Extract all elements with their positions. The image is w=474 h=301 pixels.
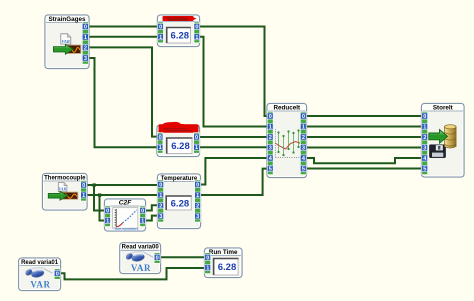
wire SG.2 to Freq2.L0: [88, 47, 158, 136]
wire SG.1 to Freq1.L1: [88, 36, 158, 38]
svg-text:1: 1: [196, 193, 199, 199]
subVI Frequency 2 (selected red title): [157, 122, 200, 157]
wire Freq1.R1 to ReduceIt.L1: [199, 37, 268, 127]
svg-text:6.28: 6.28: [171, 198, 190, 209]
svg-text:2: 2: [269, 135, 272, 141]
subVI Frequency 1 (selected red title): [158, 15, 200, 47]
svg-text:1: 1: [269, 125, 272, 131]
svg-text:6.28: 6.28: [171, 141, 190, 152]
wire ReduceIt.R4 to StoreIt.L4 jog: [306, 158, 422, 163]
subVI StrainGages: [45, 15, 89, 69]
wire ReadVaria01.0 to RunTime.L1: [60, 268, 205, 279]
svg-text:0: 0: [302, 114, 305, 120]
wire Thermocouple.R0 to Temperature.L0: [86, 184, 158, 186]
wire Freq1.R0 to ReduceIt.L0: [199, 27, 268, 117]
svg-text:2: 2: [159, 204, 162, 210]
svg-text:2: 2: [196, 204, 199, 210]
svg-text:1: 1: [159, 145, 162, 151]
svg-text:0: 0: [82, 183, 85, 189]
svg-text:3: 3: [84, 56, 87, 62]
subVI Thermocouple: [43, 174, 88, 211]
svg-text:5: 5: [423, 167, 426, 173]
svg-text:3: 3: [159, 214, 162, 220]
junction dot on Thermocouple.R0 wire: [92, 183, 95, 186]
svg-text:Run Time: Run Time: [209, 249, 238, 256]
subVI StoreIt: [422, 104, 465, 178]
svg-text:0: 0: [423, 114, 426, 120]
subVI ReduceIt: [267, 104, 307, 178]
svg-text:3: 3: [196, 214, 199, 220]
subVI Temperature: [158, 174, 201, 229]
svg-text:StoreIt: StoreIt: [433, 104, 454, 111]
wire branch to C2F.L0: [94, 185, 106, 211]
junction dot on Thermocouple.R1 wire: [98, 193, 101, 196]
svg-text:2: 2: [423, 135, 426, 141]
svg-text:1: 1: [423, 125, 426, 131]
svg-text:VAR: VAR: [30, 280, 50, 290]
svg-text:2: 2: [84, 46, 87, 52]
wire ReadVaria00.0 to RunTime.L0: [159, 256, 205, 258]
svg-text:0: 0: [106, 209, 109, 215]
svg-text:Read varia00: Read varia00: [122, 245, 160, 251]
svg-text:Read varia01: Read varia01: [21, 260, 59, 266]
svg-text:StrainGages: StrainGages: [48, 16, 86, 23]
subVI C2F: [105, 199, 146, 231]
wire SG.3 to Freq2.L1: [88, 58, 158, 147]
svg-text:VAR: VAR: [131, 263, 151, 273]
svg-text:0: 0: [206, 255, 209, 261]
svg-text:0: 0: [159, 25, 162, 31]
wire branch to C2F.L1: [100, 195, 106, 221]
svg-text:0: 0: [84, 25, 87, 31]
svg-text:1: 1: [84, 35, 87, 41]
svg-text:1: 1: [195, 145, 198, 151]
svg-text:0: 0: [195, 135, 198, 141]
wire SG.0 to Freq1.L0: [88, 26, 158, 28]
wire ReduceIt.R3 to StoreIt.L3: [306, 147, 422, 149]
svg-text:1: 1: [106, 219, 109, 225]
wire ReduceIt.R1 to StoreIt.L1: [306, 126, 422, 128]
svg-text:ReduceIt: ReduceIt: [274, 104, 301, 111]
wire Thermocouple.R1 to Temperature.L1: [86, 194, 158, 196]
subVI Run Time: [205, 248, 243, 278]
svg-text:3: 3: [423, 146, 426, 152]
svg-text:1: 1: [206, 266, 209, 272]
wire ReduceIt.R0 to StoreIt.L0: [306, 115, 422, 117]
wire Freq2.R0 to ReduceIt.L2: [199, 136, 268, 138]
svg-text:0: 0: [269, 114, 272, 120]
svg-text:3: 3: [302, 146, 305, 152]
svg-text:0: 0: [195, 25, 198, 31]
svg-text:0: 0: [56, 271, 59, 277]
wire ReduceIt.R2 to StoreIt.L2: [306, 136, 422, 138]
svg-text:2: 2: [302, 135, 305, 141]
svg-text:VAR: VAR: [61, 39, 69, 44]
svg-text:6.28: 6.28: [218, 262, 237, 273]
svg-text:1: 1: [159, 35, 162, 41]
svg-text:1: 1: [195, 35, 198, 41]
wire Temperature.R0 to ReduceIt.L4: [200, 158, 268, 185]
svg-text:°thermometers: °thermometers: [114, 227, 139, 231]
svg-text:5: 5: [302, 167, 305, 173]
svg-text:C2F: C2F: [119, 199, 132, 206]
svg-text:Temperature: Temperature: [161, 175, 198, 182]
svg-text:Thermocouple: Thermocouple: [44, 175, 86, 181]
svg-text:0: 0: [141, 209, 144, 215]
svg-text:1: 1: [302, 125, 305, 131]
wire C2F.R1 to Temperature.L3: [145, 216, 158, 221]
svg-text:1: 1: [159, 193, 162, 199]
subVI Read varia01: [19, 258, 61, 291]
svg-text:6.28: 6.28: [171, 31, 190, 42]
svg-text:1: 1: [82, 193, 85, 199]
wire C2F.R0 to Temperature.L2: [145, 205, 158, 210]
svg-text:0: 0: [159, 135, 162, 141]
wire Temperature.R1 to ReduceIt.L5: [200, 169, 268, 195]
svg-text:0: 0: [159, 183, 162, 189]
svg-text:0: 0: [196, 183, 199, 189]
svg-text:5: 5: [269, 167, 272, 173]
wire Freq2.R1 to ReduceIt.L3: [199, 146, 268, 148]
svg-text:0: 0: [156, 255, 159, 261]
svg-text:3: 3: [269, 146, 272, 152]
svg-text:1: 1: [141, 219, 144, 225]
wire ReduceIt.R5 to StoreIt.L5: [306, 168, 422, 170]
subVI Read varia00: [120, 243, 161, 274]
